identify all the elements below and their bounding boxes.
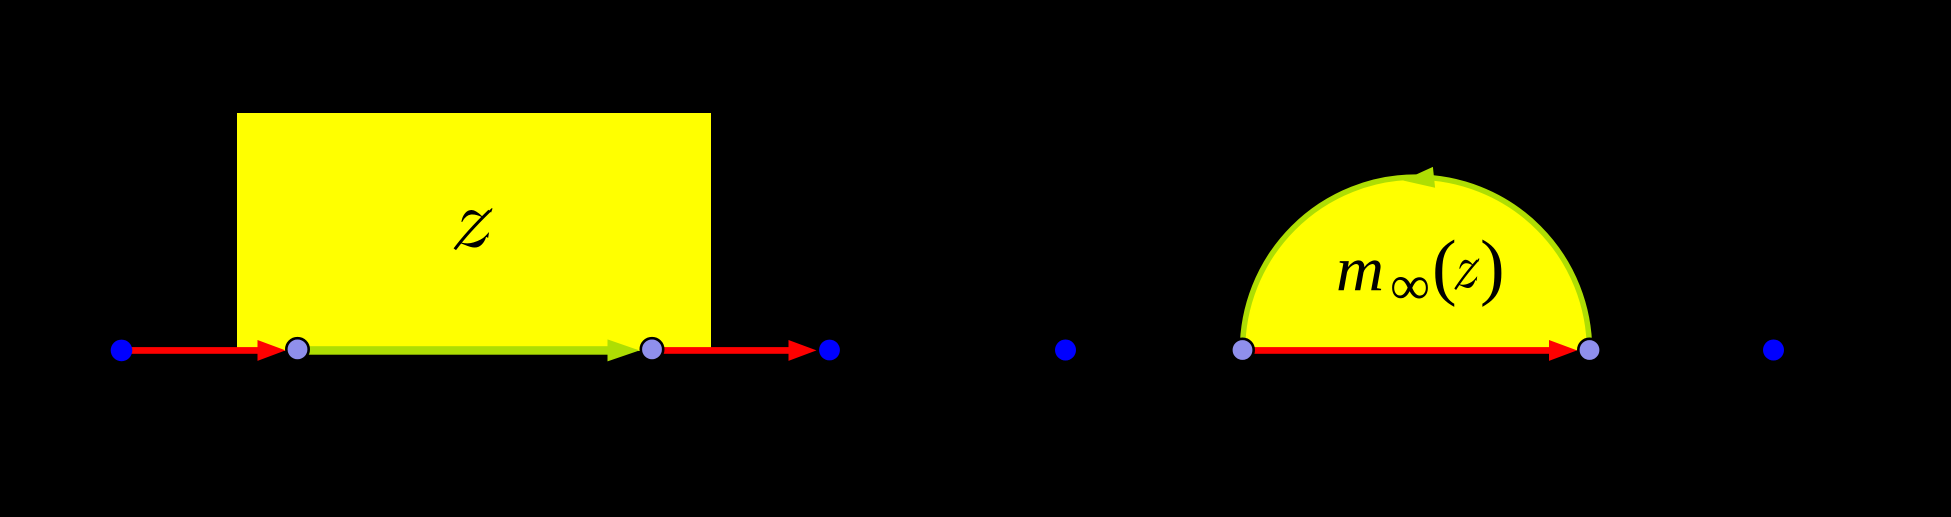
node dot2 (periwinkle with black ring)	[286, 338, 308, 360]
node dot4 (solid blue, right end of left figure)	[819, 340, 840, 361]
label m_inf(z): small z glyph	[1455, 259, 1479, 290]
node dot6 (periwinkle with black ring, left end of semicircle)	[1231, 339, 1253, 361]
yellow semicircle region m_inf(z)	[1243, 177, 1590, 350]
label z	[455, 208, 492, 249]
green arc (contour of semicircle)	[1243, 177, 1590, 350]
yellow rectangle region z	[237, 113, 711, 351]
node dot1 (solid blue, left end)	[111, 340, 133, 362]
green arrow (segment under rectangle, dot2 to dot3)	[297, 339, 640, 361]
green arc arrowhead (near apex, pointing left)	[1403, 167, 1435, 188]
node dot7 (periwinkle with black ring, right end of semicircle)	[1578, 339, 1600, 361]
node dot3 (periwinkle with black ring)	[641, 338, 663, 360]
node dot5 (solid blue, isolated left of semicircle)	[1055, 340, 1076, 361]
red arrow 2 (dot3 to dot4)	[652, 340, 817, 361]
red arrow (diameter, dot6 to dot7)	[1243, 340, 1578, 361]
red arrow 1 (dot1 to dot2)	[121, 340, 286, 361]
node dot8 (solid blue, isolated right of semicircle)	[1763, 340, 1784, 361]
